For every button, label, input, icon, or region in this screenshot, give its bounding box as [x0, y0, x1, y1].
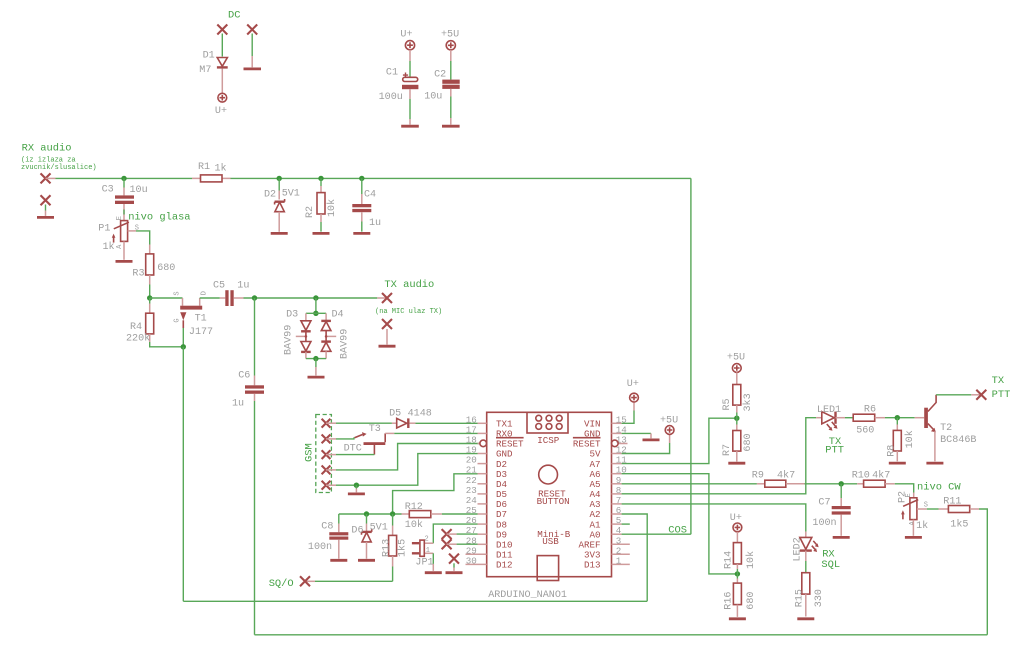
wire wiper to R3	[136, 231, 150, 245]
potentiometer P2	[901, 498, 918, 520]
svg-text:1k: 1k	[916, 520, 928, 532]
wire R13 to SQ/O	[305, 580, 315, 582]
supply +5U (R5)	[732, 364, 741, 373]
svg-text:P1: P1	[98, 224, 110, 235]
wire pin7 A3 to LED2	[622, 504, 806, 532]
pin wire R9 right	[786, 483, 805, 485]
pin 8 stub	[612, 493, 622, 495]
resistor R16	[733, 579, 741, 617]
svg-text:S: S	[174, 291, 182, 295]
LED LED1	[822, 412, 845, 424]
svg-text:1: 1	[426, 547, 430, 555]
svg-text:4148: 4148	[408, 409, 432, 420]
connector pin X GSM-3	[322, 450, 331, 459]
connector pin X GSM-1	[322, 419, 331, 428]
pin 7 stub	[612, 503, 622, 505]
transistor T1 J177 channel bar	[180, 306, 202, 310]
resistor R11	[939, 506, 980, 513]
wire pin10 A6 to R14/R16	[622, 474, 738, 574]
svg-text:3k3: 3k3	[742, 393, 754, 411]
wire R10 to P2	[895, 484, 914, 493]
svg-text:R8: R8	[887, 445, 898, 457]
wire RX audio main horizontal	[46, 177, 56, 179]
svg-text:R5: R5	[722, 398, 733, 410]
pin 14 stub	[612, 432, 622, 434]
resistor R8	[893, 418, 901, 462]
wire GSM-3 to T3 emitter	[326, 454, 336, 456]
svg-text:+5U: +5U	[727, 352, 745, 363]
svg-text:TX: TX	[992, 375, 1005, 387]
svg-text:C6: C6	[238, 371, 250, 382]
svg-text:R9: R9	[752, 470, 764, 481]
svg-text:680: 680	[743, 433, 754, 451]
junction D3/D4	[313, 295, 318, 300]
pin 11 stub	[612, 463, 622, 465]
svg-text:SQL: SQL	[821, 559, 840, 571]
ground (GSM)	[348, 492, 365, 495]
svg-text:R15: R15	[795, 589, 806, 607]
svg-text:10k: 10k	[904, 430, 916, 448]
ground (T2)	[926, 462, 943, 465]
svg-text:680: 680	[157, 263, 175, 274]
pin 26 stub	[478, 523, 487, 525]
wire LED1 to R6	[845, 417, 853, 419]
svg-text:C8: C8	[321, 522, 333, 533]
pin wire P2 wiper	[917, 508, 927, 510]
svg-text:D2: D2	[264, 190, 276, 201]
junction R2	[318, 176, 323, 181]
svg-text:E: E	[116, 216, 124, 220]
resistor R14	[733, 532, 741, 579]
wire D3/D4 bottom rail	[306, 358, 326, 360]
junction D3/D4 bottom	[313, 356, 318, 361]
svg-text:T3: T3	[369, 424, 381, 435]
svg-text:1u: 1u	[237, 280, 249, 291]
wire C8 rail	[339, 513, 402, 515]
svg-text:zvucnik/slusalice): zvucnik/slusalice)	[21, 164, 97, 172]
svg-text:2: 2	[425, 535, 429, 543]
supply +5U (5V)	[665, 426, 674, 435]
svg-text:1u: 1u	[232, 399, 244, 410]
capacitor C5	[225, 290, 233, 306]
wire C6 to bottom rail	[254, 401, 256, 635]
ground (C7)	[833, 536, 850, 539]
pin wire D2 to ground	[278, 212, 280, 232]
svg-text:220k: 220k	[126, 333, 150, 345]
diode D1	[217, 58, 228, 94]
wire bottom rail	[255, 634, 988, 636]
svg-text:100n: 100n	[308, 542, 332, 553]
svg-text:5V1: 5V1	[370, 523, 388, 534]
svg-text:C5: C5	[213, 280, 225, 291]
capacitor C3	[115, 195, 134, 204]
pin 3 stub	[612, 543, 630, 545]
ground (P2)	[905, 536, 922, 539]
resistor R13	[389, 514, 397, 581]
svg-text:R14: R14	[724, 551, 735, 569]
wire wiper to R11	[927, 508, 939, 510]
resistor R1	[201, 175, 223, 182]
svg-text:T2: T2	[940, 423, 952, 434]
wire DC-2 to ground	[251, 34, 253, 57]
svg-text:10k: 10k	[745, 551, 757, 569]
pin 10 stub	[612, 473, 622, 475]
svg-text:TX audio: TX audio	[384, 279, 434, 291]
wire R6 to T2 base	[885, 417, 915, 419]
svg-text:RX audio: RX audio	[22, 143, 72, 155]
svg-text:10k: 10k	[326, 199, 338, 217]
pin 5 stub	[612, 523, 622, 525]
ground (R15)	[797, 617, 814, 620]
connector pin X spare gnd	[449, 554, 459, 564]
pin wire P1 bottom to ground	[123, 241, 125, 259]
svg-text:D5: D5	[389, 409, 401, 420]
connector pin X TX audio gnd	[382, 319, 392, 329]
ground (TX audio)	[379, 345, 396, 348]
svg-text:30: 30	[466, 555, 477, 566]
svg-text:USB: USB	[542, 536, 559, 547]
wire X to pin28	[447, 543, 457, 545]
ground (P1)	[116, 260, 133, 263]
pin wire C3 to P1	[123, 204, 125, 221]
wire pin5 stub	[622, 523, 630, 525]
wire pin21 to C8 rail	[393, 474, 478, 514]
capacitor C1 polarized	[402, 73, 418, 90]
pin 15 stub	[612, 422, 622, 424]
svg-text:J177: J177	[189, 327, 213, 338]
ground (DC-2)	[244, 68, 262, 71]
svg-text:PTT: PTT	[992, 389, 1011, 401]
resistor R6	[853, 414, 885, 421]
wire DC to D1	[221, 34, 223, 57]
wire GSM-4 to pin18	[326, 469, 336, 471]
connector pin X D10	[442, 539, 452, 549]
svg-text:R6: R6	[864, 404, 876, 415]
svg-text:DC: DC	[228, 10, 240, 22]
wire D2 drop	[278, 178, 280, 190]
svg-text:+5U: +5U	[441, 29, 459, 40]
transistor T2 emitter	[928, 424, 936, 462]
pin wire T1 S	[182, 298, 184, 306]
svg-text:R10: R10	[852, 470, 870, 481]
pin wire R2 to ground	[320, 214, 322, 222]
pin 29 stub	[466, 553, 487, 555]
wire COS riser	[690, 178, 692, 534]
capacitor C6	[245, 385, 264, 394]
svg-text:1: 1	[616, 555, 622, 566]
svg-text:R2: R2	[305, 206, 316, 218]
pin 22 stub	[478, 483, 487, 485]
ground (D3/D4)	[308, 376, 325, 379]
resistor R2	[317, 193, 325, 214]
supply U+ (VIN)	[630, 393, 639, 402]
pin 13 stub	[618, 443, 627, 445]
svg-text:D: D	[201, 291, 209, 295]
pin 18 inversion bubble	[480, 440, 487, 447]
capacitor C8	[329, 514, 348, 559]
pin wire to ground	[355, 485, 357, 488]
pin 6 stub	[612, 513, 622, 515]
transistor T2 base	[915, 417, 925, 419]
svg-text:BC846B: BC846B	[940, 435, 976, 446]
junction D2	[277, 176, 282, 181]
wire pin8 A4 to LED1	[622, 418, 817, 494]
svg-text:COS: COS	[668, 525, 687, 537]
svg-text:D4: D4	[332, 310, 344, 321]
junction T1 gate / R4	[181, 344, 186, 349]
svg-text:M7: M7	[199, 65, 211, 76]
resistor R12	[402, 511, 442, 518]
resistor R3	[146, 254, 154, 275]
ground (C2)	[442, 125, 460, 128]
resistor R7	[733, 425, 741, 462]
resistor R15	[802, 573, 810, 617]
zener diode D6	[362, 514, 372, 559]
transistor T3 emitter	[373, 445, 375, 455]
svg-text:R1: R1	[198, 162, 210, 173]
wire JP1 pin1 to ground	[432, 553, 434, 564]
svg-text:DTC: DTC	[344, 443, 362, 454]
pin wire T1 D	[199, 298, 201, 306]
ground (RX audio)	[37, 216, 54, 219]
transistor T1 gate arrow	[180, 312, 186, 347]
svg-text:nivo glasa: nivo glasa	[128, 211, 190, 223]
transistor T3 DTC base arrow	[355, 432, 367, 438]
connector pin X RX audio gnd	[41, 195, 51, 205]
capacitor C4	[352, 204, 371, 212]
resistor R5	[733, 372, 741, 424]
wire C5 to TX audio	[244, 297, 378, 299]
potentiometer P1	[112, 221, 129, 243]
wire C6 drop	[254, 298, 256, 376]
pin wire P2 bottom	[912, 520, 914, 536]
diode D4 mid pin	[326, 335, 336, 337]
resistor R9	[765, 480, 786, 487]
wire D5 to pin16	[416, 422, 478, 424]
pin 1 stub	[612, 563, 630, 565]
svg-text:R16: R16	[724, 592, 735, 610]
wire R11 to bottom rail	[979, 509, 987, 635]
svg-text:R3: R3	[132, 269, 144, 280]
pin 9 stub	[612, 483, 622, 485]
ground (R16)	[729, 617, 746, 620]
supply U+ (below D1)	[218, 93, 227, 102]
transistor T3 collector	[384, 433, 386, 442]
diode D3 (dual, left branch)	[301, 313, 311, 358]
connector pin X GSM-4	[322, 466, 331, 475]
pin 27 stub	[478, 533, 487, 535]
junction C4	[359, 176, 364, 181]
svg-text:R11: R11	[943, 496, 961, 507]
wire R9 to R10	[805, 483, 858, 485]
svg-text:100n: 100n	[812, 518, 836, 529]
pin wire C5 right	[234, 297, 244, 299]
pin wire +5U to C2	[450, 50, 452, 61]
jumper JP1	[412, 540, 433, 556]
svg-text:5V1: 5V1	[282, 188, 300, 199]
ground (R7)	[728, 462, 745, 465]
ground (D2)	[271, 232, 288, 235]
svg-text:1k5: 1k5	[397, 539, 409, 557]
svg-text:nivo CW: nivo CW	[917, 482, 961, 494]
pin wire C1 to ground	[409, 89, 411, 99]
svg-text:ICSP: ICSP	[537, 435, 560, 446]
IC U1 ARDUINO_NANO1 body	[487, 412, 612, 576]
wire pin26 to JP1	[433, 524, 477, 543]
pin 4 stub	[612, 533, 622, 535]
svg-text:U+: U+	[215, 106, 227, 117]
pin wire to ground	[315, 359, 317, 367]
wire R12 to pin25	[442, 513, 478, 515]
pin 28 stub	[478, 543, 487, 545]
wire X to ground	[45, 205, 47, 211]
svg-text:100u: 100u	[379, 92, 403, 103]
connector pin X SQ/O	[300, 576, 310, 586]
junction R13	[390, 511, 395, 516]
svg-text:C2: C2	[434, 70, 446, 81]
connector pin X TX audio	[382, 293, 392, 303]
pin wires R1	[192, 177, 231, 179]
wire D3/D4 top	[315, 298, 317, 313]
svg-text:1k: 1k	[215, 163, 227, 175]
svg-text:U+: U+	[627, 379, 639, 390]
svg-text:GSM: GSM	[303, 443, 315, 462]
svg-text:1k5: 1k5	[950, 519, 968, 531]
pin 23 stub	[478, 493, 487, 495]
connector pin X GSM-5	[322, 481, 331, 490]
svg-text:JP1: JP1	[415, 558, 433, 569]
junction D3/D4 top	[313, 311, 318, 316]
wire pin9 A5 to R9	[622, 483, 757, 485]
wire pin12 to +5U	[622, 443, 670, 454]
wire R2 drop	[320, 178, 322, 186]
svg-text:+5U: +5U	[660, 415, 678, 426]
wire GSM-2 to T3 base	[326, 438, 336, 440]
wire R1 to A7 riser	[231, 177, 691, 179]
svg-text:BAV99: BAV99	[283, 325, 294, 355]
wire GSM-5 to pin19	[326, 484, 336, 486]
svg-text:U+: U+	[400, 29, 412, 40]
svg-text:10u: 10u	[424, 92, 442, 103]
pin 12 stub	[612, 453, 622, 455]
supply U+ (R14)	[733, 523, 742, 532]
svg-text:U+: U+	[730, 513, 742, 524]
svg-text:(na MIC ulaz TX): (na MIC ulaz TX)	[375, 308, 442, 316]
USB connector box	[537, 556, 558, 581]
svg-text:4k7: 4k7	[777, 469, 795, 481]
pin 21 stub	[478, 473, 487, 475]
junction D6	[364, 511, 369, 516]
pin 2 stub	[612, 553, 630, 555]
svg-text:560: 560	[856, 425, 874, 436]
ICSP header	[527, 412, 568, 433]
svg-text:1u: 1u	[369, 218, 381, 229]
wire T1 drain to C5	[200, 297, 220, 299]
supply +5U (C2)	[446, 41, 455, 50]
svg-text:D13: D13	[584, 560, 601, 571]
pin 18 stub	[478, 443, 480, 445]
GSM dashed box	[316, 415, 332, 493]
ground (R2)	[313, 232, 330, 235]
connector pin X D9	[442, 529, 452, 539]
svg-text:C1: C1	[386, 68, 398, 79]
svg-text:SQ/O: SQ/O	[269, 578, 294, 590]
connector pin X DC-1	[217, 25, 227, 35]
wire X to ground	[453, 563, 455, 567]
svg-text:R13: R13	[382, 539, 393, 557]
junction R8	[895, 415, 900, 420]
svg-text:R12: R12	[405, 502, 423, 513]
junction R14/R16	[735, 571, 740, 576]
junction C7	[839, 481, 844, 486]
svg-text:R7: R7	[722, 444, 733, 456]
svg-text:R4: R4	[130, 322, 142, 333]
ground (JP1)	[425, 571, 442, 574]
connector pin X GSM-2	[322, 435, 331, 444]
svg-text:C4: C4	[364, 189, 376, 200]
pin wire U+ to C1	[409, 50, 411, 61]
pin 30 stub	[466, 563, 487, 565]
junction C6	[252, 295, 257, 300]
wire pin15 to U+	[622, 411, 634, 424]
svg-text:D12: D12	[496, 560, 513, 571]
wire T3 collector to pin17	[394, 432, 477, 434]
svg-text:680: 680	[746, 592, 757, 610]
ground (C4)	[353, 232, 370, 235]
connector pin X TX PTT	[976, 390, 986, 400]
svg-text:330: 330	[814, 589, 825, 607]
wire GSM-1 to D5	[326, 422, 336, 424]
wire T2 collector to X PTT	[936, 394, 971, 396]
svg-text:C3: C3	[102, 185, 114, 196]
LED2 arrows	[812, 541, 819, 552]
pin wire C4 to ground	[361, 212, 363, 221]
pin 13 inversion bubble	[612, 440, 619, 447]
pin wire C2 to ground	[450, 89, 452, 97]
pin 17 stub	[478, 432, 487, 434]
transistor T2 bar	[924, 408, 928, 428]
wire gate junction down (A2 loop left riser)	[182, 347, 184, 602]
capacitor C2	[442, 80, 459, 89]
pin 16 stub	[478, 422, 487, 424]
svg-text:G: G	[173, 318, 181, 322]
zener diode D2	[275, 199, 285, 212]
svg-text:10k: 10k	[405, 519, 423, 531]
wire D3/D4 top rail	[306, 312, 326, 314]
wire pin14 to ground	[622, 432, 651, 434]
wire C3 drop	[123, 178, 125, 187]
svg-text:10u: 10u	[130, 185, 148, 196]
svg-text:LED1: LED1	[817, 405, 841, 416]
pin 24 stub	[478, 503, 487, 505]
wire A2 loop bottom	[183, 600, 647, 602]
reset button circle	[539, 465, 558, 484]
pin 19 stub	[478, 453, 487, 455]
LED1 arrows	[827, 422, 838, 431]
svg-text:1k: 1k	[103, 241, 115, 253]
ground (X)	[446, 571, 463, 574]
ground (pin14)	[643, 438, 660, 441]
diode D5	[397, 418, 416, 428]
pin 25 stub	[478, 513, 487, 515]
svg-text:BAV99: BAV99	[340, 329, 351, 359]
svg-text:PTT: PTT	[825, 445, 844, 457]
ground (C8)	[330, 559, 347, 562]
junction R3/R4/T1	[147, 295, 152, 300]
pin wire C6 bottom	[254, 394, 256, 401]
ground (D6)	[358, 559, 375, 562]
LED LED2	[800, 537, 812, 572]
